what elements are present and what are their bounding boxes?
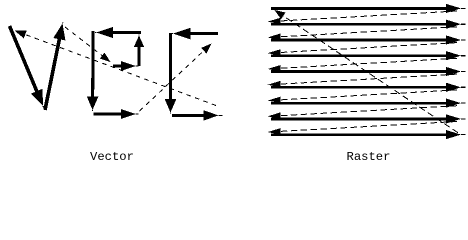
- svg-text:Raster: Raster: [347, 150, 391, 164]
- svg-text:Vector: Vector: [90, 150, 134, 164]
